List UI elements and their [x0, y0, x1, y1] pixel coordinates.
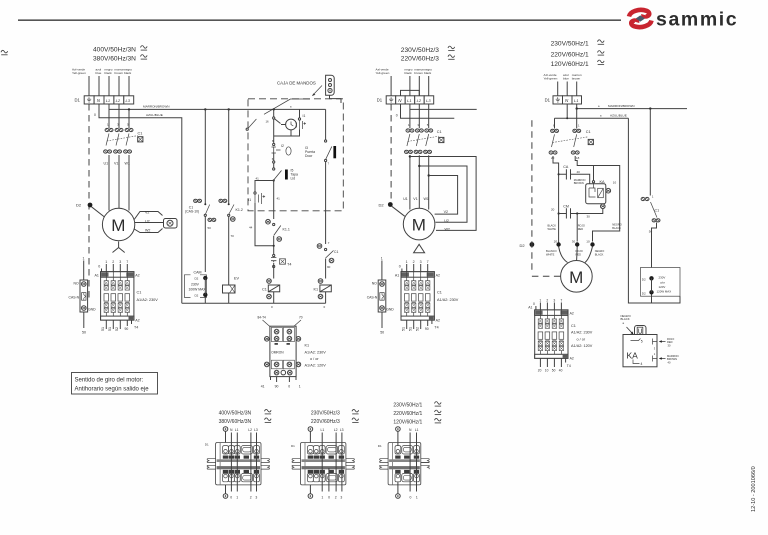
earth dashed wire — [88, 104, 90, 298]
svg-text:0: 0 — [399, 265, 401, 269]
svg-text:L1: L1 — [235, 428, 239, 432]
svg-text:1: 1 — [406, 260, 408, 264]
svg-text:7: 7 — [126, 260, 128, 264]
svg-text:2: 2 — [413, 260, 415, 264]
svg-text:41: 41 — [277, 197, 281, 201]
timer I1 clock — [273, 108, 275, 110]
Sammic logo — [629, 9, 738, 31]
svg-text:230V: 230V — [191, 282, 200, 286]
wire colour labels — [72, 68, 132, 76]
U1 V1 W1 labels — [104, 162, 130, 166]
svg-text:380V/60Hz/3N: 380V/60Hz/3N — [219, 419, 252, 425]
svg-text:40: 40 — [577, 170, 581, 174]
svg-text:M: M — [111, 216, 125, 235]
stray AC mark top left edge — [1, 50, 8, 54]
branch to I1 aux contact — [255, 181, 274, 193]
svg-text:CA: CA — [563, 165, 569, 169]
svg-text:18: 18 — [576, 156, 580, 160]
svg-text:Antihorario según salido eje: Antihorario según salido eje — [75, 386, 150, 392]
svg-text:A2: A2 — [135, 274, 139, 278]
incoming wires right — [558, 82, 577, 96]
dashed enclosure right — [532, 120, 561, 276]
svg-text:BLANCO: BLANCO — [546, 249, 557, 253]
svg-text:W1: W1 — [424, 197, 429, 201]
svg-text:A1/A2: 230V: A1/A2: 230V — [437, 298, 459, 302]
connector 3 wires — [398, 432, 417, 494]
motor feed wires — [109, 155, 129, 166]
neutral jumper — [401, 90, 420, 95]
connector 1 wires — [226, 432, 257, 494]
svg-text:0: 0 — [396, 114, 398, 118]
svg-text:120V/60Hz/1: 120V/60Hz/1 — [393, 419, 422, 425]
svg-text:0: 0 — [328, 496, 330, 500]
svg-text:M: M — [412, 216, 426, 235]
svg-text:41: 41 — [261, 384, 265, 388]
svg-text:230V/50Hz/1: 230V/50Hz/1 — [393, 403, 422, 409]
svg-text:20: 20 — [538, 368, 542, 372]
svg-text:D1: D1 — [377, 98, 383, 103]
svg-text:C1: C1 — [655, 209, 660, 213]
svg-text:120V: 120V — [659, 285, 666, 289]
svg-text:D1: D1 — [205, 442, 209, 446]
svg-text:M: M — [569, 268, 583, 287]
svg-text:C1: C1 — [437, 130, 442, 134]
svg-text:EV: EV — [234, 276, 240, 280]
svg-text:blue: blue — [563, 77, 569, 81]
wires into motor — [559, 247, 593, 263]
svg-text:T4: T4 — [434, 326, 438, 330]
svg-text:L1: L1 — [407, 98, 411, 103]
svg-text:a: a — [598, 105, 600, 108]
svg-text:51: 51 — [108, 327, 112, 331]
switch arms right — [552, 134, 577, 147]
brown control bus — [109, 108, 326, 110]
svg-text:D2: D2 — [76, 203, 82, 208]
svg-text:brown: brown — [414, 71, 423, 75]
svg-text:3: 3 — [553, 299, 555, 303]
svg-text:C1: C1 — [137, 291, 142, 295]
svg-text:(CAS-10): (CAS-10) — [185, 209, 199, 213]
svg-text:L3: L3 — [426, 98, 431, 103]
svg-text:C1: C1 — [437, 291, 442, 295]
svg-text:D1: D1 — [291, 444, 295, 448]
svg-text:52: 52 — [115, 327, 119, 331]
svg-text:220V/60Hz/1: 220V/60Hz/1 — [551, 52, 589, 59]
CAM lamp right — [641, 268, 681, 304]
contactor C1 pole circles row1 — [109, 104, 129, 128]
svg-text:0: 0 — [410, 496, 412, 500]
columns to motor with delta nodes — [410, 155, 429, 209]
svg-text:51: 51 — [401, 327, 405, 331]
brown bus mid — [410, 108, 477, 110]
delta loop inner — [429, 176, 458, 215]
svg-text:D1: D1 — [545, 98, 551, 103]
svg-text:NEGRO: NEGRO — [595, 249, 605, 253]
small switch blade 16 — [247, 119, 256, 130]
svg-text:400V/50Hz/3N: 400V/50Hz/3N — [219, 410, 252, 416]
svg-text:T4: T4 — [567, 364, 571, 368]
svg-text:Lid: Lid — [291, 177, 296, 181]
svg-text:C1: C1 — [571, 324, 576, 328]
K1 coil — [318, 279, 323, 284]
U1 V1 W1 labels mid — [403, 197, 429, 201]
svg-text:L3: L3 — [340, 428, 344, 432]
svg-text:A1: A1 — [395, 274, 399, 278]
svg-text:A1: A1 — [95, 274, 99, 278]
svg-text:K1.1: K1.1 — [283, 228, 290, 232]
svg-text:0: 0 — [324, 305, 326, 309]
OMRON relay K1 block — [258, 316, 327, 389]
blue bus mid — [401, 104, 455, 118]
svg-text:4: 4 — [641, 362, 643, 366]
svg-text:V1: V1 — [114, 162, 118, 166]
svg-text:84-T4: 84-T4 — [258, 316, 267, 320]
wire colour labels right — [544, 73, 582, 81]
svg-text:W2: W2 — [145, 228, 150, 232]
svg-text:Yell-green: Yell-green — [376, 71, 390, 75]
svg-text:44: 44 — [249, 225, 253, 229]
svg-text:1: 1 — [578, 124, 580, 128]
brown bus right — [577, 104, 687, 109]
svg-text:A2: A2 — [135, 319, 139, 323]
svg-text:3: 3 — [340, 496, 342, 500]
svg-text:blue: blue — [96, 71, 102, 75]
lid switch I5 — [274, 171, 282, 181]
CAM lamp block — [184, 270, 207, 303]
svg-text:black: black — [105, 71, 113, 75]
svg-text:V2: V2 — [444, 210, 448, 214]
svg-text:0: 0 — [288, 384, 290, 388]
KA relay contact block — [586, 166, 617, 209]
svg-text:L3: L3 — [254, 428, 258, 432]
svg-text:A2: A2 — [570, 312, 574, 316]
svg-text:K1: K1 — [314, 287, 319, 291]
IND CAS-N switch block — [69, 280, 97, 335]
top rule — [18, 19, 621, 21]
svg-text:0: 0 — [98, 265, 100, 269]
svg-text:70: 70 — [299, 316, 303, 320]
svg-text:W2: W2 — [445, 228, 450, 232]
svg-text:WHITE: WHITE — [548, 227, 557, 231]
svg-text:L2: L2 — [248, 428, 252, 432]
svg-text:50: 50 — [380, 331, 384, 335]
C1 relay socket grid body — [101, 272, 134, 320]
svg-text:a: a — [600, 115, 602, 118]
svg-text:AZUL/BLUE: AZUL/BLUE — [146, 113, 163, 117]
svg-text:BLACK: BLACK — [595, 253, 604, 257]
svg-text:70: 70 — [231, 234, 235, 238]
svg-text:220V/60Hz/3: 220V/60Hz/3 — [311, 419, 340, 425]
svg-text:0: 0 — [230, 496, 232, 500]
svg-text:CM: CM — [563, 204, 569, 208]
svg-text:I2: I2 — [281, 144, 284, 148]
svg-text:L2: L2 — [417, 98, 422, 103]
svg-text:OMRON: OMRON — [271, 350, 284, 354]
star point symbol below motor — [113, 242, 125, 253]
svg-text:50: 50 — [82, 331, 86, 335]
Sentido text box — [72, 373, 158, 395]
svg-text:I1: I1 — [303, 114, 306, 118]
svg-text:40: 40 — [559, 368, 563, 372]
svg-text:BROWN: BROWN — [574, 181, 584, 185]
svg-text:3: 3 — [255, 496, 257, 500]
svg-text:Sentido de giro del motor:: Sentido de giro del motor: — [75, 377, 144, 383]
svg-text:52: 52 — [415, 327, 419, 331]
svg-text:CAM: CAM — [194, 270, 202, 274]
C1 relay socket grid left: top pins — [105, 260, 128, 264]
bottom bus right — [628, 118, 680, 303]
svg-text:120V/60Hz/1: 120V/60Hz/1 — [551, 61, 589, 68]
C1 switch column right side — [649, 109, 651, 196]
svg-text:50: 50 — [208, 226, 212, 230]
svg-text:230V: 230V — [659, 276, 666, 280]
svg-text:C1: C1 — [334, 250, 338, 254]
K1.2 switch on EV column — [228, 109, 230, 203]
svg-text:V2: V2 — [145, 211, 149, 215]
svg-text:K1.2: K1.2 — [236, 208, 243, 212]
svg-text:o/or: o/or — [660, 280, 665, 284]
svg-text:D1: D1 — [75, 98, 81, 103]
svg-text:D2: D2 — [642, 291, 646, 295]
wire colour labels mid — [376, 68, 433, 76]
C1 socket grid mid: top pins — [406, 260, 429, 264]
triangle delta symbol — [414, 244, 425, 252]
svg-text:I1: I1 — [248, 198, 251, 202]
wire from icon to right corner — [330, 96, 342, 104]
svg-text:L1: L1 — [574, 98, 578, 103]
svg-text:D2: D2 — [520, 243, 526, 248]
svg-text:U2: U2 — [145, 219, 150, 223]
svg-text:N: N — [409, 428, 412, 432]
svg-text:3: 3 — [420, 260, 422, 264]
contact columns right — [555, 109, 577, 129]
svg-text:2: 2 — [546, 299, 548, 303]
CAJA DE MANDOS dashed enclosure — [248, 99, 343, 211]
C1 aux contact right column — [317, 244, 322, 249]
svg-text:90: 90 — [275, 384, 279, 388]
svg-text:D2: D2 — [195, 294, 199, 298]
svg-text:10: 10 — [545, 368, 549, 372]
svg-text:41: 41 — [256, 177, 260, 181]
earth dashed mid — [390, 104, 392, 199]
svg-text:A1/A2: 230V: A1/A2: 230V — [137, 298, 159, 302]
connector 2 wires — [310, 432, 342, 494]
svg-text:black: black — [124, 71, 132, 75]
svg-text:L3: L3 — [126, 98, 131, 103]
svg-text:U1: U1 — [403, 197, 408, 201]
svg-text:a: a — [623, 321, 625, 325]
svg-text:A1/A2: 120V: A1/A2: 120V — [571, 344, 593, 348]
svg-text:2: 2 — [112, 260, 114, 264]
svg-text:A1: A1 — [528, 306, 532, 310]
svg-text:brown: brown — [115, 71, 124, 75]
svg-text:KA: KA — [627, 351, 639, 361]
svg-text:NO: NO — [74, 282, 79, 286]
svg-text:1: 1 — [416, 496, 418, 500]
left column down to motor — [553, 156, 559, 243]
svg-text:90: 90 — [425, 327, 429, 331]
svg-text:K1: K1 — [305, 344, 310, 348]
svg-text:NO: NO — [372, 282, 377, 286]
svg-text:10: 10 — [586, 240, 590, 244]
C1 socket grid body right — [535, 310, 568, 358]
svg-text:MARRON/BROWN: MARRON/BROWN — [608, 104, 634, 108]
svg-text:230V/50Hz/3: 230V/50Hz/3 — [311, 410, 340, 416]
blue neutral bus — [99, 104, 182, 303]
svg-text:C1: C1 — [138, 132, 143, 136]
svg-text:A1/A2: 120V: A1/A2: 120V — [305, 364, 327, 368]
control box icon — [326, 75, 335, 95]
svg-text:1: 1 — [381, 257, 383, 261]
svg-text:16: 16 — [266, 120, 270, 124]
svg-text:0: 0 — [533, 302, 535, 306]
svg-text:220V/60Hz/3: 220V/60Hz/3 — [401, 56, 439, 63]
svg-text:D1: D1 — [378, 444, 382, 448]
svg-text:C1: C1 — [262, 287, 267, 291]
contactor poles mid — [408, 123, 429, 127]
node 41 junction — [273, 179, 275, 181]
svg-text:C1: C1 — [586, 130, 591, 134]
IND CAS-N block mid — [367, 280, 395, 335]
incoming wires mid — [391, 76, 429, 96]
svg-text:1: 1 — [83, 257, 85, 261]
svg-text:BLACK: BLACK — [612, 226, 621, 230]
I3 door switch — [326, 147, 332, 160]
svg-text:90: 90 — [327, 265, 331, 269]
blue bus right — [555, 104, 629, 118]
delta loop middle — [419, 166, 467, 222]
CAS-10 switch on CAM column — [204, 109, 206, 203]
svg-text:CAS-N: CAS-N — [69, 296, 80, 300]
T4 thermal contact — [273, 246, 275, 255]
svg-text:1: 1 — [539, 299, 541, 303]
svg-text:a: a — [290, 105, 292, 108]
svg-text:220V/60Hz/1: 220V/60Hz/1 — [393, 411, 422, 417]
svg-text:0: 0 — [94, 113, 96, 117]
svg-text:20: 20 — [551, 207, 555, 211]
svg-text:V1: V1 — [413, 197, 417, 201]
motor M left — [102, 208, 134, 240]
L1 wire to motor black — [575, 156, 620, 242]
main switch blade — [264, 99, 310, 114]
svg-text:L1: L1 — [321, 428, 325, 432]
motor M mid — [403, 208, 435, 240]
delta loop outer — [410, 157, 476, 231]
connector 1 body — [207, 443, 269, 485]
svg-text:120W MAX: 120W MAX — [657, 290, 672, 294]
KA starting relay box — [621, 314, 679, 367]
svg-text:CAS-N: CAS-N — [367, 296, 378, 300]
svg-text:AZUL/BLUE: AZUL/BLUE — [610, 113, 627, 117]
svg-text:7: 7 — [328, 241, 330, 245]
svg-text:D2: D2 — [379, 203, 385, 208]
svg-text:WHITE: WHITE — [546, 253, 555, 257]
motor terminal links V2 U2 W2 — [134, 212, 163, 233]
svg-text:L1: L1 — [106, 98, 110, 103]
svg-text:o / or: o / or — [577, 337, 586, 341]
svg-text:7: 7 — [427, 260, 429, 264]
svg-text:7: 7 — [328, 162, 330, 166]
svg-text:black: black — [405, 71, 413, 75]
wire to I2 — [273, 136, 275, 144]
svg-text:2: 2 — [335, 496, 337, 500]
svg-text:30: 30 — [572, 240, 576, 244]
svg-text:3: 3 — [119, 260, 121, 264]
svg-text:380V/60Hz/3N: 380V/60Hz/3N — [93, 56, 136, 63]
svg-text:10: 10 — [613, 181, 617, 185]
svg-text:A2: A2 — [570, 357, 574, 361]
svg-text:20: 20 — [554, 240, 558, 244]
C1 socket grid right: top pins — [539, 299, 562, 303]
motor M right — [561, 261, 593, 293]
svg-text:Yell-green: Yell-green — [544, 77, 558, 81]
svg-text:1: 1 — [105, 260, 107, 264]
svg-text:RED: RED — [578, 227, 584, 231]
svg-text:400V/50Hz/3N: 400V/50Hz/3N — [93, 47, 136, 54]
motor wire colour labels — [546, 223, 622, 257]
svg-text:D2: D2 — [642, 277, 646, 281]
svg-text:CAJA DE MANDOS: CAJA DE MANDOS — [277, 81, 316, 86]
svg-text:50: 50 — [552, 368, 556, 372]
svg-text:U2: U2 — [444, 219, 449, 223]
svg-text:GND: GND — [88, 308, 96, 312]
svg-text:A1/A2: 230V: A1/A2: 230V — [571, 331, 593, 335]
wire to I5 — [273, 153, 275, 161]
svg-text:brown: brown — [572, 77, 581, 81]
wire I5 to K1.1 — [273, 181, 275, 220]
incoming supply wires — [89, 76, 129, 96]
svg-text:A1/A2: 230V: A1/A2: 230V — [305, 351, 327, 355]
motor connection dots — [556, 242, 560, 246]
bottom neutral bus — [182, 302, 326, 304]
svg-text:T4: T4 — [287, 263, 291, 267]
connector 3 body — [380, 443, 430, 485]
svg-text:230V/50Hz/3: 230V/50Hz/3 — [401, 47, 439, 54]
contactor pole circles row2 — [104, 150, 132, 153]
svg-text:51: 51 — [408, 327, 412, 331]
svg-text:N: N — [230, 428, 233, 432]
svg-text:90: 90 — [125, 327, 129, 331]
svg-text:T4: T4 — [134, 326, 138, 330]
svg-text:A2: A2 — [436, 319, 440, 323]
timer bottom loop — [274, 119, 300, 136]
svg-text:sammic: sammic — [656, 9, 738, 31]
svg-text:12-10 - 2001066/0: 12-10 - 2001066/0 — [751, 466, 757, 512]
svg-text:1: 1 — [321, 496, 323, 500]
svg-text:L1: L1 — [415, 428, 419, 432]
svg-text:MARRON/BROWN: MARRON/BROWN — [143, 104, 169, 108]
arrow from label to box — [313, 86, 323, 96]
svg-text:Door: Door — [305, 154, 313, 158]
svg-text:D2: D2 — [195, 277, 199, 281]
svg-text:2: 2 — [250, 496, 252, 500]
svg-text:7: 7 — [560, 299, 562, 303]
thermal protector — [164, 219, 178, 229]
svg-text:A2: A2 — [436, 274, 440, 278]
svg-text:230V/50Hz/1: 230V/50Hz/1 — [551, 41, 589, 48]
svg-text:U1: U1 — [104, 162, 109, 166]
svg-text:1: 1 — [652, 195, 654, 199]
svg-text:100W MAX: 100W MAX — [189, 287, 207, 291]
svg-text:5: 5 — [641, 339, 643, 343]
contactor switch arms — [106, 134, 129, 146]
contactor C1 poles (left) labels 1 3 5 — [107, 122, 129, 126]
svg-text:Yell-green: Yell-green — [72, 71, 86, 75]
svg-text:51: 51 — [101, 327, 105, 331]
door switch column from brown bus — [325, 109, 327, 140]
svg-text:o / or: o / or — [310, 357, 319, 361]
C1 socket grid body mid — [401, 272, 434, 320]
